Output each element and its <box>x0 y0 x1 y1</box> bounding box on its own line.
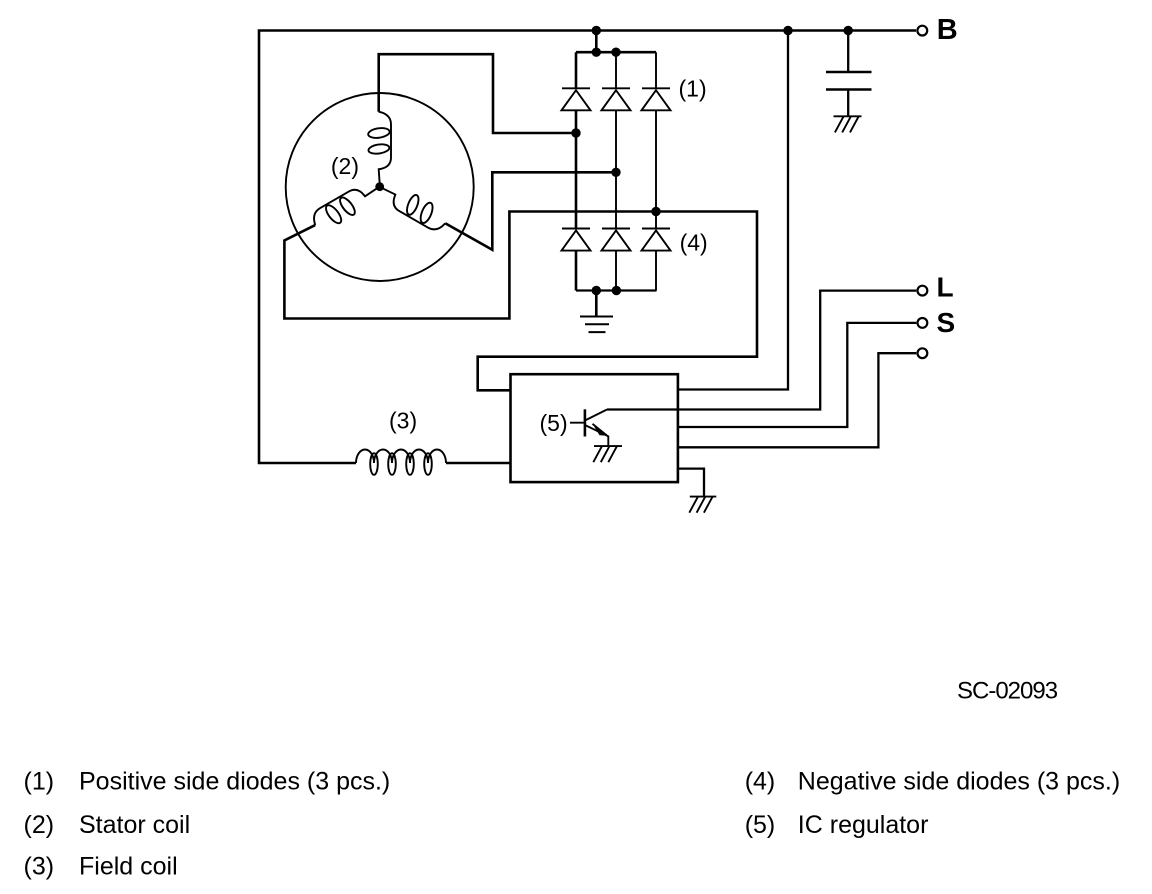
svg-text:S: S <box>937 307 956 338</box>
svg-text:B: B <box>937 14 958 46</box>
svg-text:Stator coil: Stator coil <box>79 811 190 839</box>
svg-text:Field coil: Field coil <box>79 853 178 881</box>
svg-text:(4): (4) <box>745 767 776 795</box>
svg-text:(2): (2) <box>24 811 55 839</box>
svg-text:(5): (5) <box>540 410 568 436</box>
svg-text:L: L <box>937 272 954 303</box>
svg-text:Positive side diodes (3 pcs.): Positive side diodes (3 pcs.) <box>79 767 390 795</box>
svg-text:Negative side diodes (3 pcs.): Negative side diodes (3 pcs.) <box>798 767 1120 795</box>
svg-text:(1): (1) <box>679 76 707 102</box>
svg-text:(3): (3) <box>24 853 55 881</box>
svg-text:(4): (4) <box>680 230 708 256</box>
svg-text:(2): (2) <box>331 153 359 179</box>
svg-text:SC-02093: SC-02093 <box>957 677 1058 704</box>
svg-text:(5): (5) <box>745 811 776 839</box>
svg-text:IC regulator: IC regulator <box>798 811 929 839</box>
svg-text:(3): (3) <box>389 408 417 434</box>
svg-text:(1): (1) <box>24 767 55 795</box>
